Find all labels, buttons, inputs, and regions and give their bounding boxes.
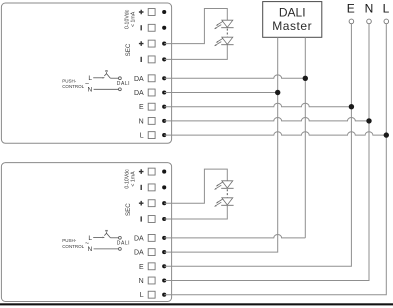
wire U1 DA2 to DALI bus DA- <box>164 92 278 94</box>
push switch S1 actuator stem <box>106 72 108 73</box>
push switch S1 arrowhead <box>103 77 105 79</box>
terminal dot row4 U2 <box>162 217 166 221</box>
wire DALI bus DA+ vertical from master <box>304 37 306 238</box>
LED D1 emission arrow 1 <box>217 21 223 25</box>
push switch S2 actuator m <box>105 230 107 231</box>
polarity mark - terminal 4 U2 <box>140 216 142 221</box>
terminal dot row8 U2 <box>162 278 166 282</box>
svg-text:DALI: DALI <box>117 241 130 247</box>
wire U1 N to mains N <box>164 118 369 121</box>
svg-text:L: L <box>88 235 92 242</box>
svg-text:< 1mA: < 1mA <box>130 171 136 187</box>
terminal dot row9 U1 <box>162 133 166 137</box>
svg-text:E: E <box>139 264 144 271</box>
LED D2 triangle <box>222 37 233 44</box>
terminal dot row5 U2 <box>162 236 166 240</box>
terminal square row9 U1 <box>148 132 155 139</box>
page bottom rule <box>0 303 393 305</box>
junction U1 L / L line <box>384 132 389 137</box>
terminal square row2 U1 <box>148 24 155 31</box>
terminal square row2 U2 <box>148 184 155 191</box>
wire LED string D1 to SEC- <box>164 45 227 60</box>
junction U1 E / E line <box>349 104 354 109</box>
driver device U1 enclosure <box>1 3 171 143</box>
LED D2 emission arrow 2 <box>216 42 222 46</box>
terminal square row8 U1 <box>148 117 155 124</box>
push switch S2 wire from L <box>93 236 102 238</box>
mains source circle L <box>384 19 389 24</box>
terminal square row6 U2 <box>148 249 155 256</box>
svg-text:E: E <box>347 1 355 15</box>
wire U1 L to mains L <box>164 132 386 135</box>
LED D1 cathode bar <box>221 27 233 29</box>
dashed series continuation D2 <box>226 189 228 197</box>
junction U1 DA1 / DA+ bus <box>303 76 308 81</box>
LED D4 emission arrow 2 <box>216 202 222 206</box>
terminal dot row7 U2 <box>162 264 166 268</box>
terminal square row1 U2 <box>148 168 155 175</box>
push switch S1 wire to contact <box>110 77 118 79</box>
svg-text:PUSH-: PUSH- <box>62 238 77 243</box>
polarity mark - terminal 2 U1 <box>140 25 142 30</box>
polarity mark + terminal 1 U2 <box>139 169 144 174</box>
terminal dot row1 U1 <box>162 10 166 14</box>
polarity mark + terminal 1 U1 <box>139 10 144 15</box>
LED D2 emission arrow 1 <box>217 38 223 42</box>
junction U1 N / N line <box>366 118 371 123</box>
LED D4 triangle <box>222 198 233 205</box>
terminal square row5 U1 <box>148 75 155 82</box>
polarity mark + terminal 3 U2 <box>139 201 144 206</box>
terminal dot row1 U2 <box>162 170 166 174</box>
terminal dot row2 U2 <box>162 185 166 189</box>
LED D4 emission arrow 1 <box>217 199 223 203</box>
svg-text:N: N <box>88 246 93 253</box>
terminal dot row2 U1 <box>162 26 166 30</box>
LED D3 emission arrow 2 <box>216 185 222 189</box>
terminal dot row3 U1 <box>162 42 166 46</box>
terminal square row9 U2 <box>148 291 155 298</box>
svg-text:< 1mA: < 1mA <box>130 11 136 27</box>
terminal square row3 U2 <box>148 200 155 207</box>
LED D4 cathode bar <box>221 204 233 206</box>
wire U1 E to mains E <box>164 103 351 106</box>
LED D2 cathode bar <box>221 44 233 46</box>
terminal dot row3 U2 <box>162 201 166 205</box>
svg-text:DALI: DALI <box>279 6 306 20</box>
push switch S2 N wire <box>94 248 119 250</box>
terminal dot row9 U2 <box>162 293 166 297</box>
push switch S1 actuator m <box>105 71 107 72</box>
push switch S1 N circle <box>119 88 122 91</box>
push switch S2 wire to contact <box>110 237 118 239</box>
wire U2 DA1 to DALI bus DA+ <box>164 235 305 238</box>
terminal square row4 U2 <box>148 216 155 223</box>
wire SEC+ to LED string D2 <box>164 169 227 203</box>
push switch S2 contact circle <box>119 236 122 239</box>
svg-text:L: L <box>140 292 144 299</box>
terminal dot row8 U1 <box>162 119 166 123</box>
polarity mark - terminal 2 U2 <box>140 185 142 190</box>
terminal dot row6 U1 <box>162 90 166 94</box>
svg-text:N: N <box>88 86 93 93</box>
push switch S2 N circle <box>119 248 122 251</box>
terminal square row1 U1 <box>148 9 155 16</box>
junction U1 DA2 / DA- bus <box>275 90 280 95</box>
driver device U2 enclosure <box>1 163 171 302</box>
svg-text:N: N <box>139 118 144 125</box>
push switch S1 wire from L <box>93 77 102 79</box>
push switch S1 contact circle <box>119 77 122 80</box>
terminal dot row4 U1 <box>162 57 166 61</box>
svg-text:L: L <box>140 133 144 140</box>
svg-text:DALI: DALI <box>117 81 130 87</box>
terminal dot row6 U2 <box>162 250 166 254</box>
LED D1 triangle <box>222 20 233 27</box>
svg-text:SEC: SEC <box>125 203 132 216</box>
wire L vertical <box>164 24 386 295</box>
svg-text:DA: DA <box>134 250 144 257</box>
wire DALI bus DA- vertical from master to U2 DA2 <box>164 37 278 252</box>
push switch S2 arrowhead <box>103 237 105 239</box>
dashed series continuation D1 <box>226 29 228 37</box>
svg-text:PUSH-: PUSH- <box>62 78 77 83</box>
wire E vertical <box>164 24 351 267</box>
wire LED string D2 to SEC- <box>164 205 227 219</box>
DALI Master controller box <box>263 2 322 38</box>
svg-text:N: N <box>139 278 144 285</box>
terminal dot row7 U1 <box>162 105 166 109</box>
wire SEC+ to LED string D1 <box>164 9 227 44</box>
terminal square row3 U1 <box>148 40 155 47</box>
wire N vertical <box>164 24 369 281</box>
terminal square row7 U2 <box>148 263 155 270</box>
terminal dot row5 U1 <box>162 76 166 80</box>
svg-text:L: L <box>383 1 390 15</box>
svg-text:CONTROL: CONTROL <box>62 84 84 89</box>
terminal square row4 U1 <box>148 56 155 63</box>
svg-text:DA: DA <box>134 76 144 83</box>
svg-text:L: L <box>88 75 92 82</box>
svg-text:Master: Master <box>272 19 312 33</box>
mains source circle N <box>367 19 372 24</box>
svg-text:SEC: SEC <box>125 43 132 56</box>
push switch S1 blade <box>104 74 110 79</box>
svg-text:CONTROL: CONTROL <box>62 244 84 249</box>
svg-text:E: E <box>139 104 144 111</box>
wire U1 DA1 to DALI bus DA+ <box>164 75 305 78</box>
terminal square row6 U1 <box>148 89 155 96</box>
svg-text:N: N <box>365 1 374 15</box>
LED D1 emission arrow 2 <box>216 25 222 29</box>
terminal square row5 U2 <box>148 234 155 241</box>
mains source circle E <box>349 19 354 24</box>
svg-text:DA: DA <box>134 90 144 97</box>
LED D3 triangle <box>222 181 233 188</box>
terminal square row8 U2 <box>148 277 155 284</box>
polarity mark - terminal 4 U1 <box>140 57 142 62</box>
push switch S1 N wire <box>94 88 119 90</box>
polarity mark + terminal 3 U1 <box>139 41 144 46</box>
push switch S2 blade <box>104 233 110 238</box>
push switch S2 actuator stem <box>106 232 108 233</box>
terminal square row7 U1 <box>148 103 155 110</box>
svg-text:DA: DA <box>134 235 144 242</box>
LED D3 cathode bar <box>221 187 233 189</box>
LED D3 emission arrow 1 <box>217 182 223 186</box>
